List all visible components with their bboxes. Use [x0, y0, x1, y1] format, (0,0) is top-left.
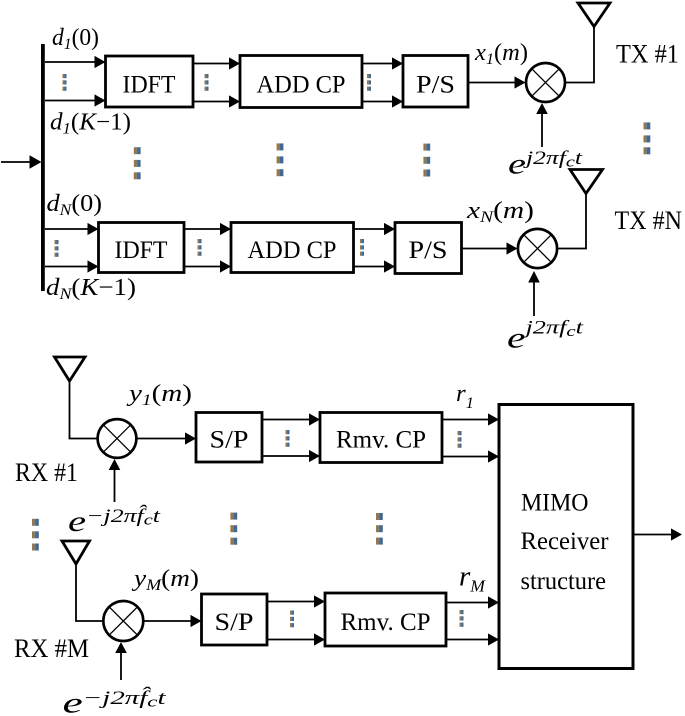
wire IDFT2 to ADDCP2 top — [184, 223, 231, 235]
dots input 2 — [55, 240, 59, 257]
dots input 1 — [63, 74, 67, 91]
wire SP2 to RMV2 top — [267, 595, 325, 607]
svg-text:MIMO: MIMO — [521, 490, 589, 517]
svg-text:dN(K−1): dN(K−1) — [46, 275, 136, 303]
wire RMV1 to MIMO bottom — [442, 450, 499, 462]
dots IDFT2-ADDCP2 — [198, 239, 202, 256]
wire ADDCP2 to PS2 top — [354, 223, 396, 235]
svg-text:Rmv. CP: Rmv. CP — [336, 427, 426, 454]
input bus line — [41, 44, 45, 291]
svg-text:IDFT: IDFT — [123, 72, 176, 99]
mixer M4 — [103, 601, 143, 641]
svg-text:RX #1: RX #1 — [15, 458, 78, 487]
wire RMV2 to MIMO bottom — [446, 633, 499, 645]
wire RMV1 to MIMO top — [442, 413, 499, 425]
dots column RX antennas — [32, 519, 39, 551]
svg-text:P/S: P/S — [416, 72, 455, 99]
block IDFT TX1 — [106, 56, 194, 107]
dots column chain gap 1 — [134, 147, 141, 179]
mixer M2 — [518, 229, 557, 268]
dots column chain gap 2 — [277, 143, 284, 176]
dots after ADDCP2 — [360, 239, 364, 256]
wire IDFT2 to ADDCP2 bottom — [184, 260, 231, 272]
wire antenna RX1 to mixer3 — [70, 381, 98, 439]
dots IDFT1-ADDCP1 — [205, 74, 209, 91]
wire ADDCP2 to PS2 bottom — [354, 260, 396, 272]
wire RMV2 to MIMO top — [446, 596, 499, 608]
svg-text:P/S: P/S — [409, 237, 448, 264]
wire SP2 to RMV2 bottom — [267, 633, 325, 645]
dots RMV2-MIMO — [460, 610, 464, 627]
wire SP1 to RMV1 top — [262, 413, 320, 425]
svg-text:structure: structure — [521, 568, 607, 595]
antenna TX1 — [578, 3, 610, 27]
block Rmv CP RX1 — [320, 413, 442, 463]
svg-text:r1: r1 — [456, 381, 474, 412]
dots RMV1-MIMO — [458, 431, 462, 448]
svg-text:ej2πfct: ej2πfct — [508, 148, 583, 181]
block S/P RX1 — [196, 413, 262, 463]
wire dN(0) to IDFT2 — [45, 223, 99, 235]
block ADD CP TX1 — [240, 56, 362, 108]
block IDFT TX2 — [99, 223, 185, 273]
LO arrow mixer2 — [528, 271, 540, 316]
input arrow — [1, 155, 42, 168]
wire IDFT1 to ADDCP1 bottom — [193, 95, 240, 107]
wire antenna RX2 to mixer4 — [76, 564, 103, 621]
svg-text:y1(m): y1(m) — [127, 381, 192, 409]
dots column chain gap 3 — [423, 144, 430, 177]
svg-text:x1(m): x1(m) — [474, 40, 528, 68]
wire mixer4 to SP2 — [144, 615, 202, 627]
svg-text:Rmv. CP: Rmv. CP — [341, 609, 431, 636]
wire PS1 to mixer1 — [468, 76, 526, 88]
svg-text:e−j2πf̂ct: e−j2πf̂ct — [63, 687, 167, 716]
wire d1(0) to IDFT — [45, 56, 106, 68]
svg-text:e−j2πf̂ct: e−j2πf̂ct — [68, 505, 161, 538]
wire mixer1 to antenna TX1 — [565, 27, 594, 83]
svg-text:d1(0): d1(0) — [52, 25, 99, 53]
block P/S TX2 — [395, 223, 462, 274]
svg-text:IDFT: IDFT — [115, 237, 168, 264]
dots column RMV gap — [376, 513, 383, 545]
antenna RX1 — [55, 357, 86, 381]
block S/P RX2 — [202, 594, 268, 645]
svg-text:S/P: S/P — [215, 609, 254, 636]
wire SP1 to RMV1 bottom — [262, 450, 320, 462]
dots after ADDCP1 — [367, 74, 371, 91]
svg-text:xN(m): xN(m) — [466, 198, 534, 226]
svg-text:ADD CP: ADD CP — [257, 72, 346, 99]
LO arrow mixer1 — [536, 103, 548, 147]
svg-text:TX #N: TX #N — [615, 206, 683, 235]
svg-text:S/P: S/P — [210, 427, 249, 454]
svg-text:yM(m): yM(m) — [132, 566, 199, 594]
LO arrow mixer3 — [109, 459, 121, 502]
dots column SP gap — [230, 513, 237, 545]
block P/S TX1 — [403, 56, 468, 108]
block MIMO Receiver structure — [499, 405, 633, 669]
svg-text:d1(K−1): d1(K−1) — [50, 110, 131, 138]
wire mixer2 to antenna TX2 — [557, 194, 586, 249]
svg-text:rM: rM — [459, 562, 486, 596]
wire IDFT1 to ADDCP1 top — [193, 57, 240, 69]
output arrow MIMO — [633, 528, 682, 540]
svg-text:ej2πfct: ej2πfct — [507, 318, 584, 355]
svg-text:Receiver: Receiver — [521, 528, 610, 555]
dots column TX antennas — [644, 122, 651, 154]
block ADD CP TX2 — [231, 223, 354, 273]
block Rmv CP RX2 — [325, 593, 446, 646]
svg-text:dN(0): dN(0) — [47, 191, 103, 219]
mixer M3 — [98, 419, 137, 458]
antenna RX2 — [62, 541, 90, 564]
LO arrow mixer4 — [115, 642, 127, 680]
mixer M1 — [526, 63, 565, 102]
wire mixer3 to SP1 — [137, 432, 197, 444]
wire PS2 to mixer2 — [462, 242, 518, 254]
dots SP2-RMV2 — [290, 611, 294, 628]
svg-text:TX #1: TX #1 — [616, 40, 679, 69]
wire dN(K-1) to IDFT2 — [45, 260, 99, 272]
wire d1(K-1) to IDFT — [45, 94, 106, 106]
svg-text:RX #M: RX #M — [14, 634, 89, 663]
antenna TX2 — [570, 170, 603, 194]
dots SP1-RMV1 — [286, 430, 290, 447]
wire ADDCP1 to PS1 top — [362, 57, 403, 69]
svg-text:ADD CP: ADD CP — [248, 237, 337, 264]
wire ADDCP1 to PS1 bottom — [362, 95, 403, 107]
